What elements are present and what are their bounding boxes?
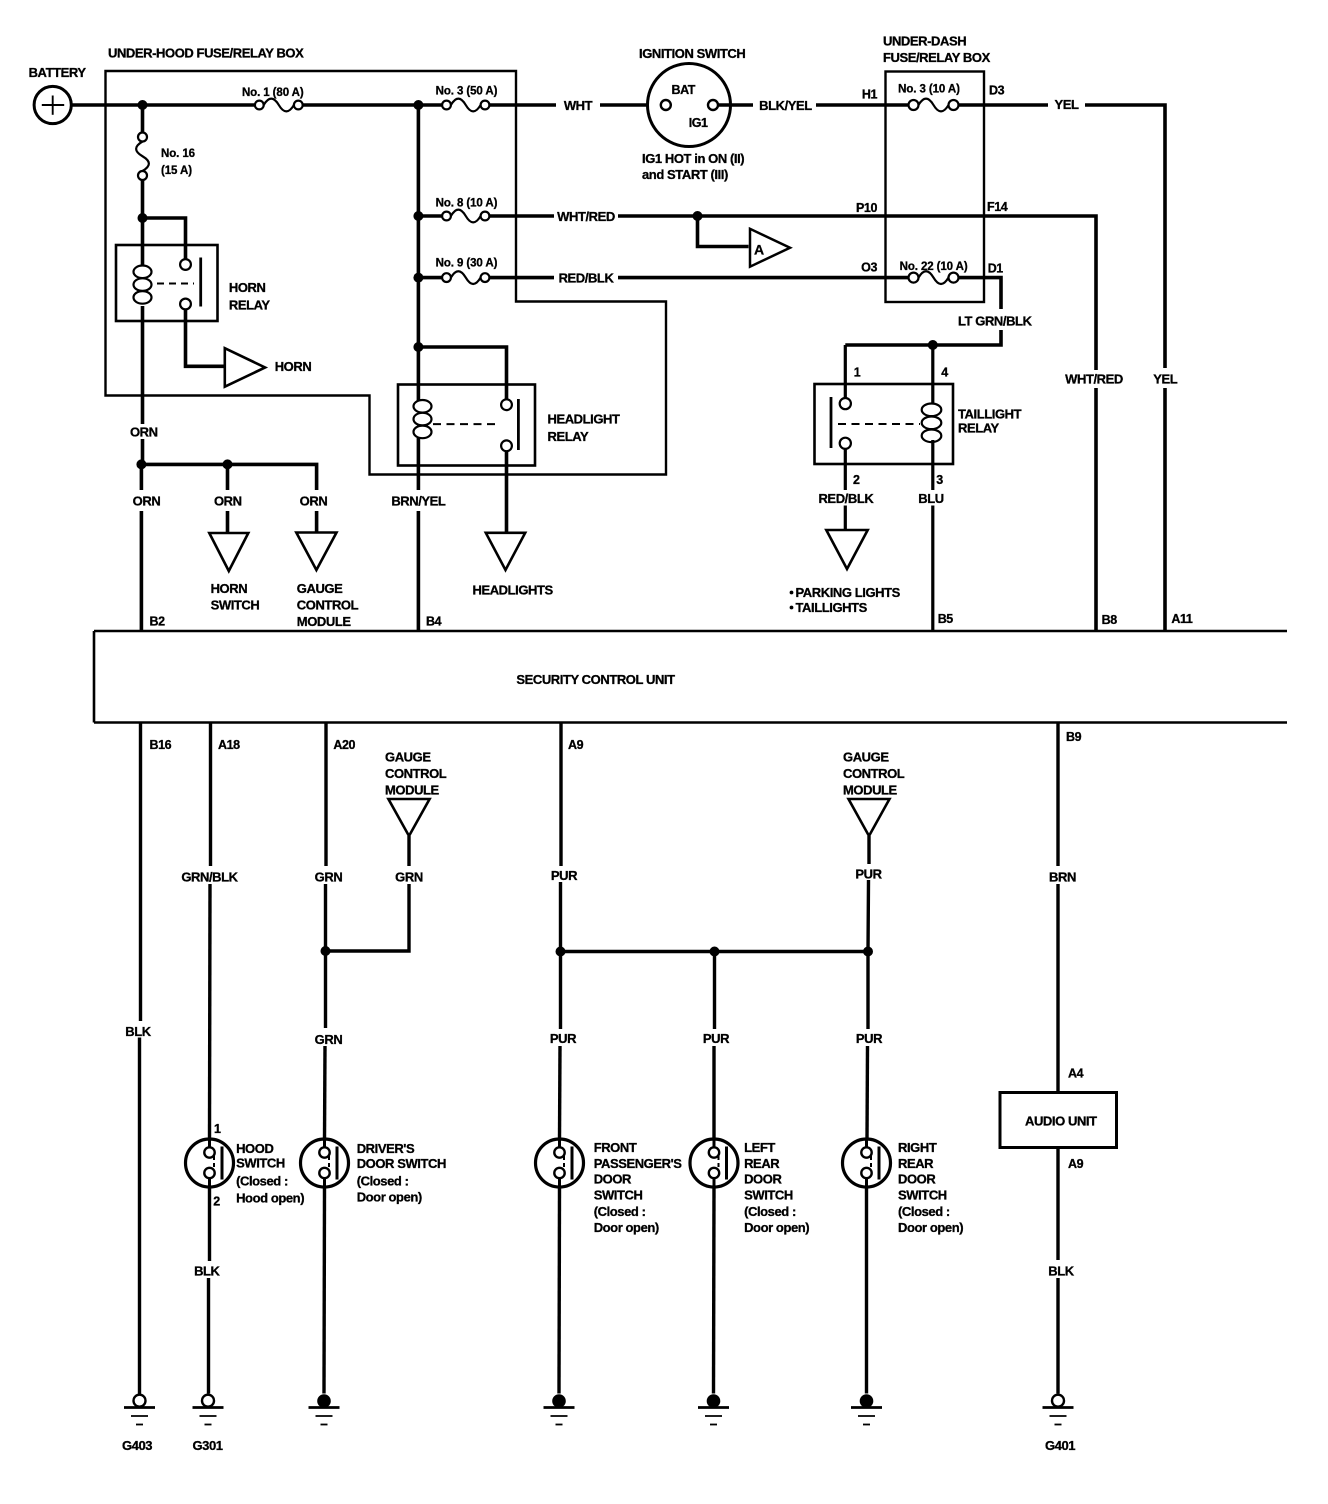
svg-text:B4: B4: [426, 615, 442, 629]
svg-text:G403: G403: [122, 1438, 152, 1453]
svg-text:A18: A18: [218, 738, 240, 752]
svg-text:DOOR SWITCH: DOOR SWITCH: [357, 1156, 446, 1171]
svg-text:MODULE: MODULE: [385, 783, 440, 798]
svg-text:1: 1: [214, 1122, 221, 1136]
svg-text:1: 1: [854, 366, 861, 380]
svg-text:HORN: HORN: [211, 581, 248, 596]
svg-text:Door open): Door open): [357, 1190, 422, 1205]
svg-text:No. 8 (10 A): No. 8 (10 A): [436, 198, 498, 210]
svg-text:G301: G301: [192, 1438, 222, 1453]
svg-text:RED/BLK: RED/BLK: [818, 491, 874, 506]
svg-text:ORN: ORN: [214, 494, 242, 509]
svg-text:UNDER-DASH: UNDER-DASH: [883, 34, 966, 49]
svg-text:ORN: ORN: [300, 494, 328, 509]
svg-text:(15 A): (15 A): [161, 165, 192, 177]
svg-text:No. 3 (50 A): No. 3 (50 A): [436, 86, 498, 98]
svg-text:Door open): Door open): [744, 1220, 809, 1235]
svg-text:H1: H1: [862, 88, 878, 102]
svg-text:BLK: BLK: [194, 1264, 220, 1279]
svg-text:SECURITY CONTROL UNIT: SECURITY CONTROL UNIT: [516, 672, 675, 687]
svg-text:SWITCH: SWITCH: [211, 598, 260, 613]
svg-text:DOOR: DOOR: [594, 1172, 632, 1187]
svg-text:DRIVER'S: DRIVER'S: [357, 1141, 415, 1156]
svg-text:HEADLIGHT: HEADLIGHT: [548, 412, 621, 427]
svg-text:LT GRN/BLK: LT GRN/BLK: [958, 314, 1033, 329]
svg-text:F14: F14: [987, 200, 1008, 214]
svg-text:(Closed :: (Closed :: [594, 1204, 646, 1219]
svg-text:BRN/YEL: BRN/YEL: [391, 494, 446, 509]
svg-text:CONTROL: CONTROL: [843, 766, 905, 781]
svg-text:B8: B8: [1102, 613, 1118, 627]
svg-text:P10: P10: [856, 201, 877, 215]
svg-text:BATTERY: BATTERY: [29, 65, 87, 80]
svg-text:RELAY: RELAY: [229, 298, 271, 313]
svg-text:No. 1 (80 A): No. 1 (80 A): [242, 87, 304, 99]
svg-text:BAT: BAT: [672, 83, 696, 97]
svg-text:RELAY: RELAY: [958, 421, 1000, 436]
svg-text:GRN: GRN: [395, 870, 423, 885]
svg-text:PARKING LIGHTS: PARKING LIGHTS: [796, 585, 901, 600]
svg-text:PUR: PUR: [703, 1031, 730, 1046]
svg-text:TAILLIGHT: TAILLIGHT: [958, 407, 1022, 422]
svg-text:BLU: BLU: [918, 491, 943, 506]
svg-text:B5: B5: [938, 612, 954, 626]
svg-text:No. 9 (30 A): No. 9 (30 A): [436, 258, 498, 270]
svg-text:IG1 HOT in ON (II): IG1 HOT in ON (II): [642, 151, 744, 166]
svg-text:(Closed :: (Closed :: [357, 1174, 409, 1189]
svg-text:PUR: PUR: [856, 1031, 883, 1046]
svg-text:BLK: BLK: [125, 1024, 151, 1039]
svg-text:RELAY: RELAY: [548, 429, 590, 444]
svg-text:4: 4: [941, 366, 948, 380]
svg-text:MODULE: MODULE: [843, 783, 898, 798]
svg-text:O3: O3: [861, 261, 877, 275]
svg-text:2: 2: [213, 1195, 220, 1209]
svg-text:(Closed :: (Closed :: [898, 1204, 950, 1219]
svg-text:PUR: PUR: [551, 868, 578, 883]
svg-text:Door open): Door open): [898, 1220, 963, 1235]
svg-text:PUR: PUR: [550, 1031, 577, 1046]
svg-text:FUSE/RELAY BOX: FUSE/RELAY BOX: [883, 50, 991, 65]
svg-text:SWITCH: SWITCH: [594, 1187, 643, 1202]
svg-text:YEL: YEL: [1054, 97, 1079, 112]
svg-text:A: A: [754, 242, 764, 258]
svg-text:HEADLIGHTS: HEADLIGHTS: [473, 583, 554, 598]
svg-text:A11: A11: [1171, 612, 1192, 626]
svg-text:PASSENGER'S: PASSENGER'S: [594, 1156, 683, 1171]
svg-text:WHT: WHT: [564, 98, 593, 113]
svg-text:3: 3: [936, 473, 943, 487]
svg-text:B2: B2: [150, 615, 166, 629]
svg-text:HORN: HORN: [229, 280, 266, 295]
svg-text:B16: B16: [150, 738, 172, 752]
svg-text:YEL: YEL: [1153, 372, 1178, 387]
svg-text:CONTROL: CONTROL: [385, 766, 447, 781]
svg-text:FRONT: FRONT: [594, 1140, 637, 1155]
svg-text:A9: A9: [1068, 1157, 1084, 1171]
svg-text:(Closed :: (Closed :: [744, 1204, 796, 1219]
svg-text:GRN: GRN: [315, 870, 343, 885]
svg-text:GRN: GRN: [315, 1032, 343, 1047]
svg-text:AUDIO UNIT: AUDIO UNIT: [1025, 1114, 1097, 1129]
svg-text:B9: B9: [1066, 730, 1082, 744]
svg-text:IG1: IG1: [689, 116, 708, 130]
svg-text:HOOD: HOOD: [236, 1141, 273, 1156]
svg-text:HORN: HORN: [275, 359, 312, 374]
svg-text:BLK/YEL: BLK/YEL: [759, 98, 812, 113]
svg-text:REAR: REAR: [898, 1156, 934, 1171]
svg-text:RIGHT: RIGHT: [898, 1140, 937, 1155]
svg-text:A9: A9: [568, 738, 584, 752]
svg-text:DOOR: DOOR: [898, 1172, 936, 1187]
svg-text:CONTROL: CONTROL: [297, 598, 359, 613]
svg-text:GAUGE: GAUGE: [385, 750, 431, 765]
svg-text:(Closed :: (Closed :: [236, 1174, 288, 1189]
svg-text:A4: A4: [1068, 1067, 1084, 1081]
svg-text:IGNITION SWITCH: IGNITION SWITCH: [639, 46, 745, 61]
svg-text:2: 2: [853, 473, 860, 487]
svg-text:GAUGE: GAUGE: [843, 750, 889, 765]
svg-text:MODULE: MODULE: [297, 614, 352, 629]
svg-text:GRN/BLK: GRN/BLK: [181, 870, 238, 885]
svg-text:No. 16: No. 16: [161, 148, 195, 160]
svg-text:D1: D1: [988, 262, 1004, 276]
svg-text:REAR: REAR: [744, 1156, 780, 1171]
svg-text:RED/BLK: RED/BLK: [559, 271, 615, 286]
svg-text:TAILLIGHTS: TAILLIGHTS: [796, 600, 868, 615]
svg-text:and START (III): and START (III): [642, 167, 728, 182]
svg-text:SWITCH: SWITCH: [744, 1187, 793, 1202]
svg-text:No. 22 (10 A): No. 22 (10 A): [900, 261, 968, 273]
svg-text:PUR: PUR: [855, 867, 882, 882]
svg-text:BRN: BRN: [1049, 870, 1076, 885]
svg-text:ORN: ORN: [133, 494, 161, 509]
svg-text:G401: G401: [1045, 1438, 1075, 1453]
svg-text:UNDER-HOOD FUSE/RELAY BOX: UNDER-HOOD FUSE/RELAY BOX: [108, 46, 304, 61]
svg-text:BLK: BLK: [1048, 1264, 1074, 1279]
svg-text:WHT/RED: WHT/RED: [557, 209, 615, 224]
svg-text:DOOR: DOOR: [744, 1172, 782, 1187]
svg-text:GAUGE: GAUGE: [297, 581, 343, 596]
svg-text:LEFT: LEFT: [744, 1140, 775, 1155]
svg-text:Door open): Door open): [594, 1220, 659, 1235]
svg-text:No. 3 (10 A): No. 3 (10 A): [898, 84, 960, 96]
svg-text:WHT/RED: WHT/RED: [1065, 372, 1123, 387]
svg-text:SWITCH: SWITCH: [898, 1187, 947, 1202]
svg-text:D3: D3: [989, 84, 1005, 98]
svg-text:SWITCH: SWITCH: [236, 1156, 285, 1171]
svg-text:ORN: ORN: [130, 425, 158, 440]
svg-text:A20: A20: [333, 738, 355, 752]
svg-text:Hood open): Hood open): [236, 1191, 304, 1206]
